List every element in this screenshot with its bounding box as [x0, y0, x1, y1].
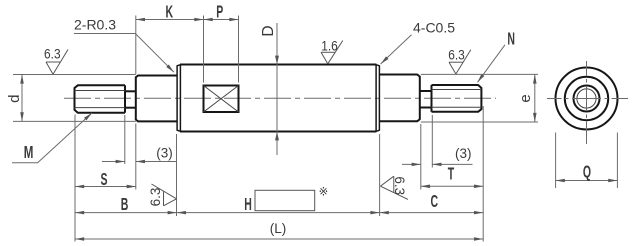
dimension D arrowheads — [275, 56, 279, 141]
dimension Q — [556, 180, 618, 182]
svg-text:d: d — [6, 95, 23, 103]
left neck groove — [125, 91, 136, 107]
right thread N end — [432, 85, 482, 112]
svg-text:T: T — [448, 165, 455, 184]
left thread M end — [74, 85, 125, 112]
svg-text:P: P — [216, 3, 223, 22]
dimension B — [75, 212, 177, 214]
extension line body left — [176, 134, 178, 216]
extension line left thread end — [124, 115, 126, 164]
dimension T — [421, 185, 483, 187]
dimension P — [204, 19, 239, 21]
extension line left end — [74, 115, 76, 242]
svg-text:6.3: 6.3 — [392, 176, 407, 195]
svg-text:e: e — [517, 94, 534, 102]
H value box — [255, 190, 315, 210]
svg-text:1.6: 1.6 — [321, 37, 338, 53]
dimension D line — [276, 23, 278, 155]
extension line keyway left — [203, 16, 205, 83]
dimension d — [21, 75, 23, 122]
right thread minor diameter lines — [432, 90, 482, 108]
extension line d top — [13, 74, 136, 76]
centerline main shaft — [64, 97, 496, 99]
svg-text:C: C — [431, 192, 439, 211]
surface finish 6.3 top left — [46, 50, 68, 75]
end view horizontal centerline — [547, 98, 628, 100]
end view thread major circle — [574, 86, 600, 112]
svg-text:H: H — [244, 195, 252, 214]
dimension e — [534, 74, 536, 122]
extension line Q left — [555, 133, 557, 189]
surface finish 6.3 above right thread — [449, 50, 471, 74]
svg-text:S: S — [100, 171, 107, 190]
svg-text:※: ※ — [319, 186, 329, 198]
svg-text:6.3: 6.3 — [448, 47, 465, 63]
dimension H — [177, 212, 380, 214]
extension line left neck end — [135, 124, 137, 190]
end view vertical centerline — [586, 61, 588, 144]
right mid cylinder e — [380, 75, 421, 122]
end view thread minor circle — [577, 89, 596, 108]
svg-text:N: N — [507, 30, 515, 49]
svg-text:6.3: 6.3 — [148, 188, 163, 207]
svg-text:(3): (3) — [156, 146, 173, 161]
svg-text:Q: Q — [583, 163, 591, 182]
svg-text:2-R0.3: 2-R0.3 — [74, 16, 116, 32]
end view circle d — [565, 77, 608, 120]
extension line right end — [482, 106, 484, 242]
extension line K left — [135, 16, 137, 75]
extension line right neck start — [420, 124, 422, 190]
surface finish 6.3 bottom left rotated — [152, 184, 177, 206]
extension line right thread start — [431, 115, 433, 168]
dimension (3) left — [102, 161, 125, 163]
svg-text:(3): (3) — [455, 146, 472, 161]
dimension K — [136, 19, 204, 21]
left thread minor diameter lines — [75, 91, 126, 108]
svg-text:4-C0.5: 4-C0.5 — [413, 20, 455, 36]
dimension S — [75, 186, 136, 188]
svg-text:D: D — [260, 25, 277, 36]
svg-text:(L): (L) — [270, 221, 287, 236]
right neck groove — [420, 91, 432, 108]
left mid cylinder d — [135, 76, 177, 122]
keyway square with cross — [204, 86, 239, 113]
svg-text:B: B — [121, 195, 129, 214]
extension line d bottom — [13, 120, 136, 122]
svg-text:K: K — [166, 3, 174, 22]
dimension C — [380, 212, 484, 214]
surface finish 6.3 bottom right rotated — [380, 176, 408, 199]
dimension (L) — [75, 238, 483, 240]
extension line Q right — [616, 133, 618, 189]
svg-text:M: M — [24, 144, 34, 163]
extension line keyway right — [238, 16, 240, 83]
end view outer circle — [556, 68, 618, 130]
extension line body right — [379, 134, 381, 216]
surface finish 1.6 on body top — [321, 41, 343, 64]
extension line e top — [421, 73, 538, 75]
svg-text:6.3: 6.3 — [44, 46, 61, 62]
main body outline — [180, 65, 376, 132]
extension line e bottom — [421, 121, 538, 123]
dimension (3) right — [402, 163, 421, 165]
